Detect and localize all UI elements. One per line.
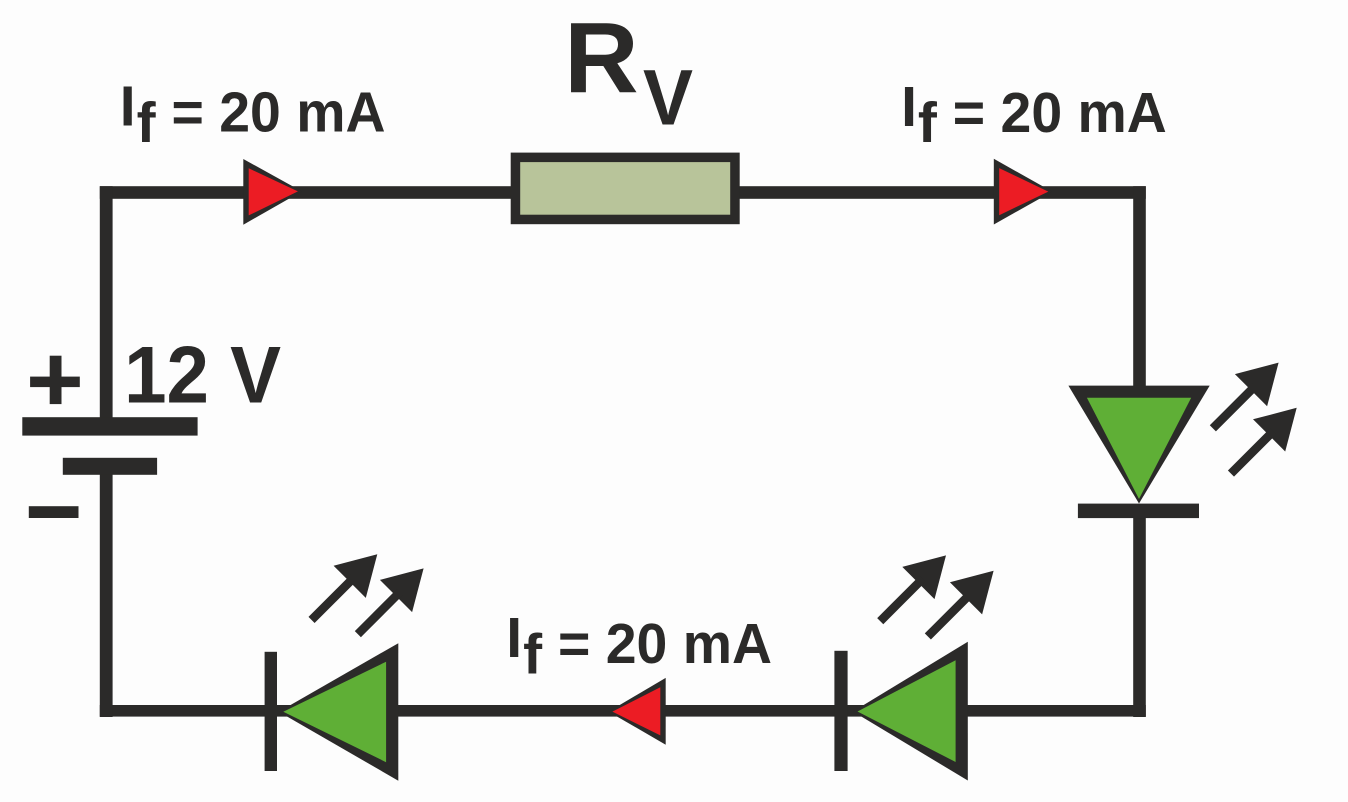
current arrow If direction (bottom wire, pointing left)	[609, 678, 666, 745]
light arrow 2 of LED D1	[1228, 408, 1297, 477]
LED D1 (right side, cathode down) cathode bar	[1078, 504, 1199, 518]
light arrow 1 of LED D2	[877, 555, 946, 624]
battery B1 positive plate (long)	[22, 417, 197, 435]
current arrow If direction (top right wire)	[994, 159, 1052, 225]
light arrow 1 of LED D3	[309, 554, 378, 623]
battery B1 negative plate (short)	[63, 458, 157, 475]
wire bottom (LED D2 / D3 chain back to battery -)	[100, 705, 1146, 717]
wire right vertical upper (top wire down to LED D1)	[1133, 186, 1146, 392]
wire top (battery + to LED D1 anode)	[100, 186, 1146, 199]
svg-text:I: I	[506, 606, 522, 670]
battery minus sign	[29, 506, 79, 518]
LED D1 (right side, cathode down) triangle (anode)	[1068, 386, 1209, 504]
svg-text:12 V: 12 V	[124, 331, 281, 421]
label If = 20 mA (top left)	[120, 75, 386, 155]
resistor RV body	[511, 153, 740, 225]
LED D2 (bottom right, cathode left) triangle (anode)	[853, 642, 968, 781]
wire right vertical lower (LED D1 cathode down to bottom wire)	[1133, 511, 1146, 717]
LED D2 (bottom right, cathode left) cathode bar	[834, 651, 847, 771]
svg-text:= 20 mA: = 20 mA	[172, 81, 386, 145]
svg-text:R: R	[564, 2, 639, 114]
svg-text:I: I	[120, 75, 136, 139]
svg-text:f: f	[918, 91, 938, 155]
wire left vertical (battery + up to top wire)	[100, 186, 113, 426]
svg-text:f: f	[137, 91, 157, 155]
light arrow 1 of LED D1	[1210, 363, 1279, 432]
svg-text:V: V	[643, 53, 693, 142]
current arrow If direction (top left wire)	[243, 159, 301, 225]
svg-text:= 20 mA: = 20 mA	[953, 81, 1167, 145]
svg-text:f: f	[523, 622, 543, 686]
LED D3 (bottom left, cathode left) cathode bar	[265, 652, 277, 771]
LED D3 (bottom left, cathode left) triangle (anode)	[279, 643, 399, 781]
battery plus sign	[30, 356, 80, 404]
label If = 20 mA (top right)	[901, 75, 1167, 155]
svg-text:= 20 mA: = 20 mA	[558, 612, 772, 676]
light arrow 2 of LED D3	[355, 568, 424, 637]
light arrow 2 of LED D2	[925, 571, 994, 640]
label If = 20 mA (bottom)	[506, 606, 772, 686]
wire battery - stem down to bottom wire	[100, 470, 113, 717]
svg-text:I: I	[901, 75, 917, 139]
